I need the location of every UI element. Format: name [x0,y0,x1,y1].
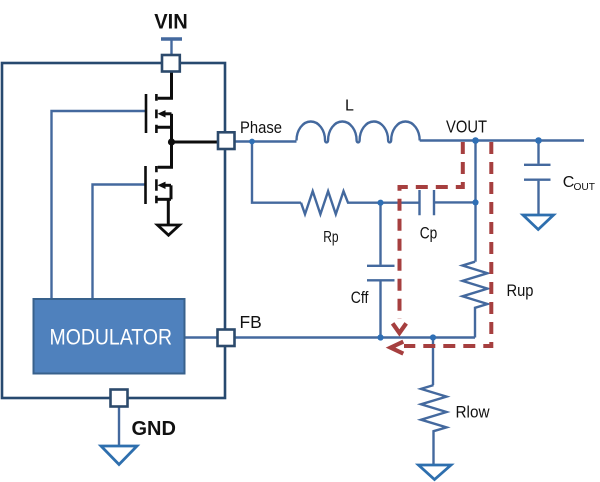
svg-text:Rlow: Rlow [456,404,490,422]
svg-text:GND: GND [132,418,176,440]
svg-text:OUT: OUT [574,182,596,193]
svg-text:Rp: Rp [323,229,338,246]
svg-text:Cp: Cp [420,225,438,243]
svg-text:FB: FB [240,312,262,332]
svg-text:L: L [345,98,354,115]
svg-text:Phase: Phase [240,119,282,137]
svg-text:Cff: Cff [351,289,369,307]
svg-text:VOUT: VOUT [446,117,487,137]
svg-text:MODULATOR: MODULATOR [50,325,173,350]
svg-text:VIN: VIN [154,10,188,34]
svg-text:Rup: Rup [507,282,534,300]
